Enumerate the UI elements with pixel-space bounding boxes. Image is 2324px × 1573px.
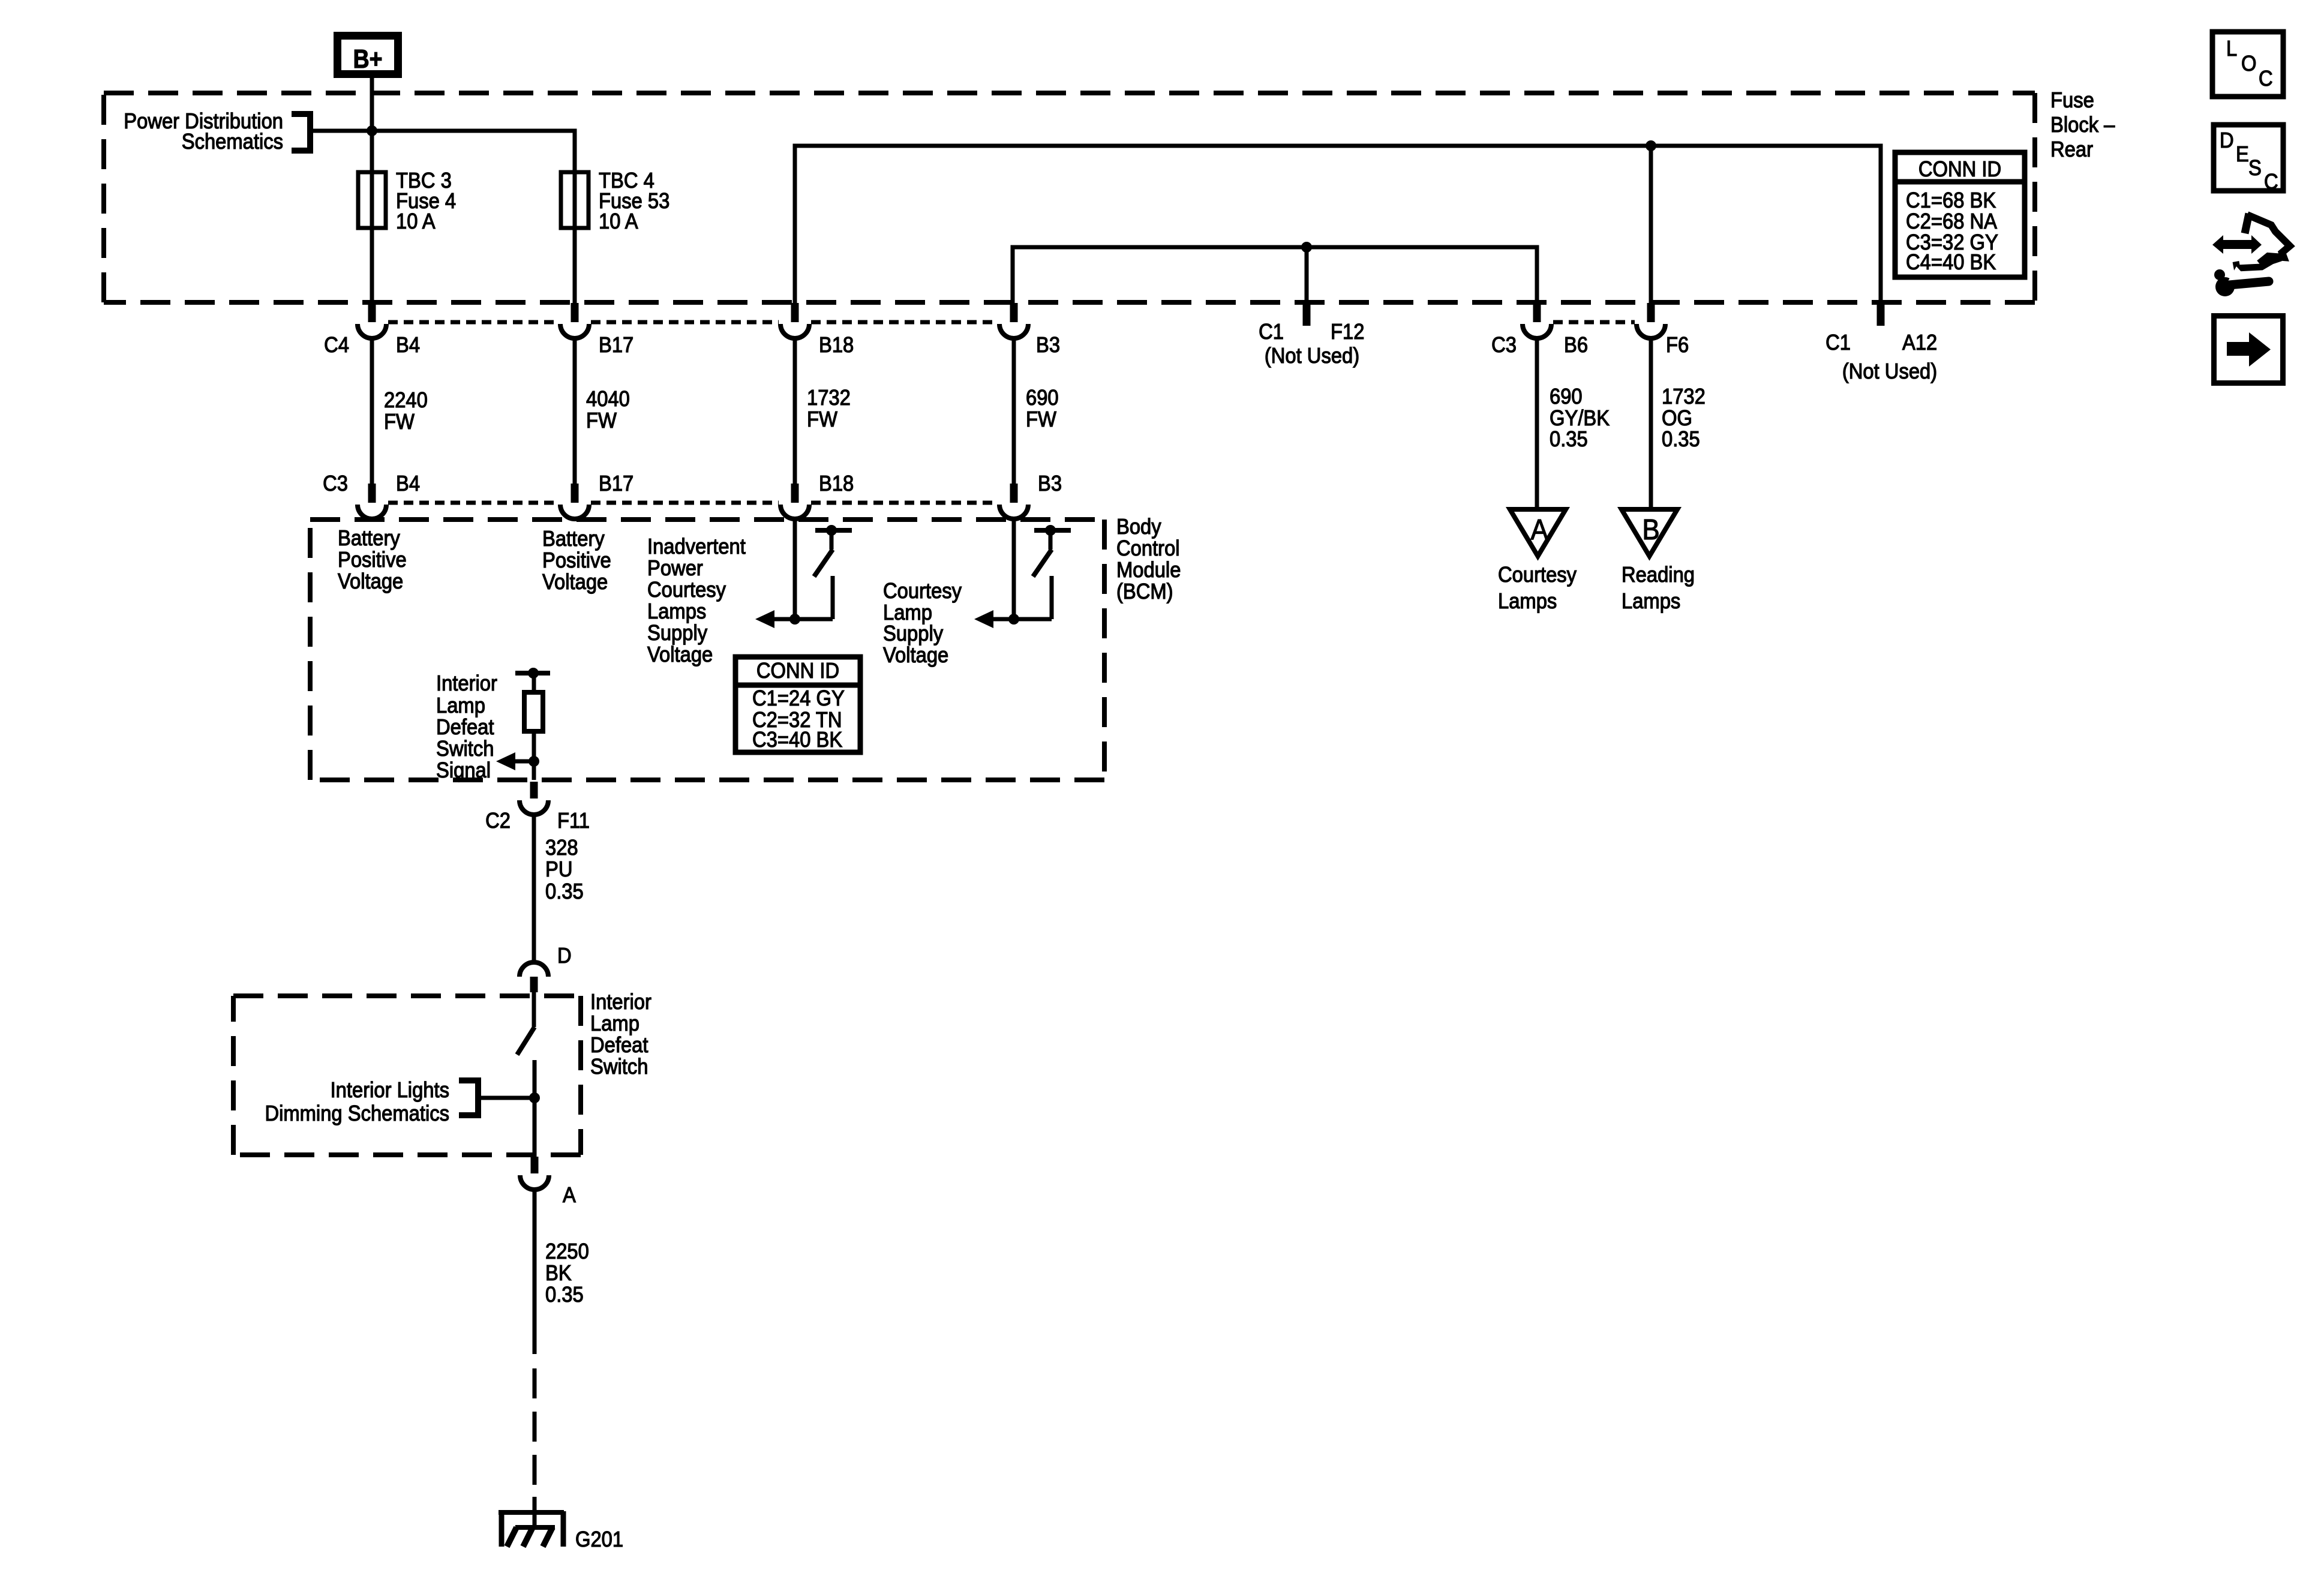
- connector cup pin B18: [780, 324, 809, 338]
- svg-text:Positive: Positive: [338, 548, 407, 572]
- svg-text:2240: 2240: [384, 389, 428, 413]
- svg-text:Inadvertent: Inadvertent: [647, 535, 746, 559]
- svg-text:Courtesy: Courtesy: [647, 578, 726, 602]
- wire to BCM pin: [1012, 338, 1016, 484]
- wire down to F12 not used pin: [1305, 247, 1309, 305]
- svg-text:GY/BK: GY/BK: [1550, 407, 1610, 431]
- svg-text:C2: C2: [485, 809, 511, 833]
- svg-text:Schematics: Schematics: [182, 130, 283, 154]
- Body Control Module (BCM) dashed outline: [310, 517, 1104, 522]
- icon forward arrow box: [2214, 316, 2283, 383]
- svg-text:G201: G201: [575, 1528, 623, 1552]
- svg-text:(Not Used): (Not Used): [1842, 360, 1937, 384]
- connector stub A: [531, 1157, 539, 1173]
- svg-text:B: B: [1642, 513, 1659, 545]
- svg-text:B+: B+: [353, 44, 383, 74]
- svg-text:B17: B17: [599, 334, 633, 358]
- svg-text:Interior Lights: Interior Lights: [331, 1079, 449, 1103]
- svg-text:Supply: Supply: [883, 622, 944, 646]
- connector dotted line row2 B4-B17: [388, 501, 559, 505]
- svg-text:Power: Power: [647, 557, 703, 581]
- connector cup pin C4/B4: [358, 324, 386, 338]
- svg-text:328: 328: [545, 836, 578, 860]
- svg-text:Switch: Switch: [436, 737, 494, 761]
- connector dotted line B18-B3: [811, 320, 998, 325]
- svg-text:Defeat: Defeat: [436, 716, 494, 740]
- fuse TBC 3 Fuse 4 10 A: [358, 172, 386, 228]
- svg-text:0.35: 0.35: [545, 880, 584, 904]
- svg-text:Reading: Reading: [1622, 563, 1695, 587]
- svg-text:B18: B18: [819, 334, 854, 358]
- connector cup D: [520, 962, 548, 977]
- svg-text:Voltage: Voltage: [338, 570, 403, 594]
- svg-text:2250: 2250: [545, 1240, 589, 1264]
- wire to BCM pin: [793, 338, 797, 484]
- off-page triangle B: [1622, 509, 1677, 556]
- off-page triangle A: [1510, 509, 1566, 556]
- svg-text:C2=68 NA: C2=68 NA: [1906, 210, 1997, 234]
- svg-text:10 A: 10 A: [396, 210, 436, 234]
- BCM driver switch at B3: [1012, 519, 1016, 619]
- svg-text:C3=40 BK: C3=40 BK: [752, 728, 842, 752]
- svg-text:1732: 1732: [807, 386, 851, 410]
- svg-text:690: 690: [1550, 385, 1583, 409]
- connector stub pin C3/B6: [1533, 303, 1541, 322]
- wire C3/B6 to courtesy lamps triangle: [1535, 338, 1539, 511]
- svg-text:L: L: [2226, 37, 2237, 61]
- junction node at B+ feed: [367, 125, 377, 136]
- wire: fuse block internal bus to B3, F12, C3/B6: [1013, 247, 1537, 303]
- svg-text:C1=24 GY: C1=24 GY: [752, 687, 845, 711]
- svg-text:0.35: 0.35: [1662, 428, 1700, 452]
- connector stub pin B17: [571, 303, 579, 322]
- connector cup A: [520, 1175, 549, 1190]
- svg-text:Switch: Switch: [590, 1055, 648, 1079]
- svg-text:C4: C4: [324, 334, 349, 358]
- svg-text:4040: 4040: [586, 388, 630, 412]
- connector cup pin F6: [1637, 324, 1665, 338]
- connector stub pin F6: [1647, 303, 1655, 322]
- connector stub pin C4/B4: [368, 303, 376, 322]
- svg-text:B18: B18: [819, 472, 854, 496]
- svg-text:Battery: Battery: [338, 527, 401, 551]
- svg-text:Interior: Interior: [590, 990, 651, 1014]
- svg-text:Rear: Rear: [2050, 138, 2093, 162]
- connector stub pin B18: [791, 303, 799, 322]
- svg-text:E: E: [2236, 143, 2249, 167]
- wire from Power Distribution bracket to TBC4 branch: [310, 131, 575, 172]
- connector cup pin C3/B6: [1523, 324, 1551, 338]
- svg-text:BK: BK: [545, 1262, 572, 1286]
- svg-text:F12: F12: [1331, 320, 1364, 344]
- stub pin F12 (not used): [1303, 305, 1311, 326]
- wire F11 to defeat switch: [532, 815, 536, 962]
- svg-text:C3: C3: [323, 472, 348, 496]
- svg-text:PU: PU: [545, 858, 572, 882]
- svg-text:Block –: Block –: [2050, 113, 2115, 137]
- svg-text:Lamp: Lamp: [436, 694, 485, 718]
- icon LOC box: [2212, 32, 2283, 97]
- svg-text:Voltage: Voltage: [883, 644, 948, 668]
- svg-text:A: A: [1530, 513, 1548, 545]
- junction node signal tap: [529, 756, 539, 767]
- connector dotted line row2 B17-B18: [591, 501, 779, 505]
- svg-text:FW: FW: [807, 408, 837, 432]
- svg-text:Defeat: Defeat: [590, 1034, 648, 1058]
- wire F6 to reading lamps triangle: [1649, 338, 1653, 511]
- stub pin A12 (not used): [1877, 305, 1885, 326]
- BCM driver switch at B18: [793, 519, 797, 619]
- connector cup pin B17 row2: [560, 505, 589, 519]
- connector stub D: [530, 977, 538, 992]
- svg-text:0.35: 0.35: [545, 1283, 584, 1307]
- connector dotted line row2 B18-B3: [811, 501, 998, 505]
- svg-text:A12: A12: [1902, 331, 1937, 355]
- wire to BCM pin: [370, 338, 374, 484]
- svg-text:Positive: Positive: [542, 549, 611, 573]
- connector dotted line C4-B17: [388, 320, 560, 325]
- connector cup pin B17: [560, 324, 589, 338]
- svg-text:CONN ID: CONN ID: [1918, 158, 2001, 182]
- connector stub C2/F11: [530, 782, 538, 798]
- svg-text:Voltage: Voltage: [647, 643, 713, 667]
- svg-text:Dimming Schematics: Dimming Schematics: [265, 1102, 449, 1126]
- connector cup pin C3/B4: [358, 505, 386, 519]
- svg-text:C4=40 BK: C4=40 BK: [1906, 251, 1996, 275]
- svg-text:B3: B3: [1038, 472, 1062, 496]
- svg-text:Interior: Interior: [436, 672, 497, 696]
- connector stub pin B17 row2: [571, 484, 579, 503]
- svg-text:A: A: [563, 1184, 576, 1208]
- svg-text:0.35: 0.35: [1550, 428, 1588, 452]
- svg-text:B3: B3: [1036, 334, 1060, 358]
- defeat switch blade: [532, 992, 536, 1027]
- svg-text:Supply: Supply: [647, 622, 708, 646]
- svg-text:Control: Control: [1116, 537, 1180, 561]
- icon DESC box: [2214, 125, 2283, 191]
- svg-text:B6: B6: [1564, 334, 1588, 358]
- connector cup pin B3: [999, 324, 1028, 338]
- wire: fuse block internal bus to B18 and A12: [795, 146, 1881, 305]
- svg-text:S: S: [2248, 157, 2262, 181]
- junction node bus/F12: [1301, 242, 1312, 253]
- svg-text:Lamps: Lamps: [647, 600, 706, 624]
- connector stub pin B3: [1010, 303, 1018, 322]
- svg-text:C1: C1: [1259, 320, 1284, 344]
- connector stub pin B3 row2: [1010, 484, 1018, 503]
- svg-text:FW: FW: [384, 410, 415, 434]
- svg-text:Lamps: Lamps: [1622, 590, 1680, 614]
- svg-text:C1: C1: [1825, 331, 1851, 355]
- icon dog head with double arrow and wrench: [2212, 235, 2262, 254]
- arrow defeat switch signal: [496, 752, 515, 770]
- svg-text:D: D: [2220, 129, 2234, 153]
- svg-text:B4: B4: [396, 472, 420, 496]
- svg-text:(BCM): (BCM): [1116, 580, 1173, 604]
- resistor (pull-up): [524, 692, 543, 731]
- connector stub pin B18 row2: [791, 484, 799, 503]
- svg-text:C: C: [2259, 67, 2273, 91]
- svg-text:Lamp: Lamp: [883, 601, 932, 625]
- svg-text:OG: OG: [1662, 407, 1692, 431]
- connector cup pin B3 row2: [999, 505, 1028, 519]
- junction node bus/F6: [1646, 140, 1656, 151]
- junction node dimming tap: [529, 1092, 540, 1103]
- svg-text:C: C: [2264, 170, 2278, 194]
- wire pin A down: [533, 1190, 537, 1354]
- svg-text:C3: C3: [1491, 334, 1517, 358]
- svg-text:B17: B17: [599, 472, 633, 496]
- svg-text:Module: Module: [1116, 559, 1181, 583]
- svg-text:Courtesy: Courtesy: [883, 580, 962, 604]
- svg-text:Courtesy: Courtesy: [1498, 563, 1577, 587]
- wire B+ down through TBC3 fuse to pin C4/B4: [370, 78, 374, 303]
- svg-text:1732: 1732: [1662, 385, 1706, 409]
- wire branch down through TBC4 fuse to pin B17: [573, 172, 577, 303]
- fuse TBC 4 Fuse 53 10 A: [561, 172, 588, 228]
- CONN ID table (BCM): [735, 657, 860, 752]
- defeat switch signal pull-up: [515, 671, 550, 676]
- connector stub pin C3/B4: [368, 484, 376, 503]
- connector cup pin B18 row2: [780, 505, 809, 519]
- fuse block - rear dashed outline: [104, 91, 2035, 95]
- svg-text:FW: FW: [586, 409, 617, 433]
- wire to dimming schematics bracket: [478, 1096, 535, 1100]
- svg-text:FW: FW: [1026, 408, 1056, 432]
- svg-text:Lamps: Lamps: [1498, 590, 1557, 614]
- svg-text:Voltage: Voltage: [542, 571, 608, 595]
- svg-text:10 A: 10 A: [599, 210, 638, 234]
- svg-text:Lamp: Lamp: [590, 1012, 639, 1036]
- svg-text:Body: Body: [1116, 515, 1161, 539]
- svg-text:Battery: Battery: [542, 527, 605, 551]
- svg-text:(Not Used): (Not Used): [1265, 344, 1359, 368]
- ground G201: [499, 1510, 564, 1515]
- svg-text:Signal: Signal: [436, 759, 491, 783]
- svg-text:O: O: [2241, 52, 2256, 76]
- wire to BCM pin: [573, 338, 577, 484]
- svg-text:F6: F6: [1666, 334, 1689, 358]
- svg-text:690: 690: [1026, 386, 1059, 410]
- connector dotted line B17-B18: [591, 320, 779, 325]
- svg-text:C1=68 BK: C1=68 BK: [1906, 189, 1996, 213]
- svg-text:B4: B4: [396, 334, 420, 358]
- svg-text:CONN ID: CONN ID: [756, 659, 839, 683]
- wire defeat switch to pin A: [533, 1060, 537, 1157]
- bracket to Power Distribution Schematics: [292, 114, 310, 151]
- svg-text:Fuse: Fuse: [2050, 89, 2094, 113]
- bracket to Interior Lights Dimming Schematics: [459, 1080, 478, 1115]
- wire (distant) to ground: [533, 1368, 537, 1511]
- wire down to F6 pin: [1649, 146, 1653, 303]
- Interior Lamp Defeat Switch dashed outline: [233, 993, 581, 998]
- CONN ID table (fuse block): [1895, 152, 2025, 277]
- connector cup C2/F11: [520, 800, 548, 815]
- connector dotted line B6-F6: [1553, 320, 1635, 325]
- B+ battery feed symbol: [338, 36, 398, 74]
- svg-text:D: D: [557, 944, 572, 968]
- svg-text:F11: F11: [557, 809, 590, 833]
